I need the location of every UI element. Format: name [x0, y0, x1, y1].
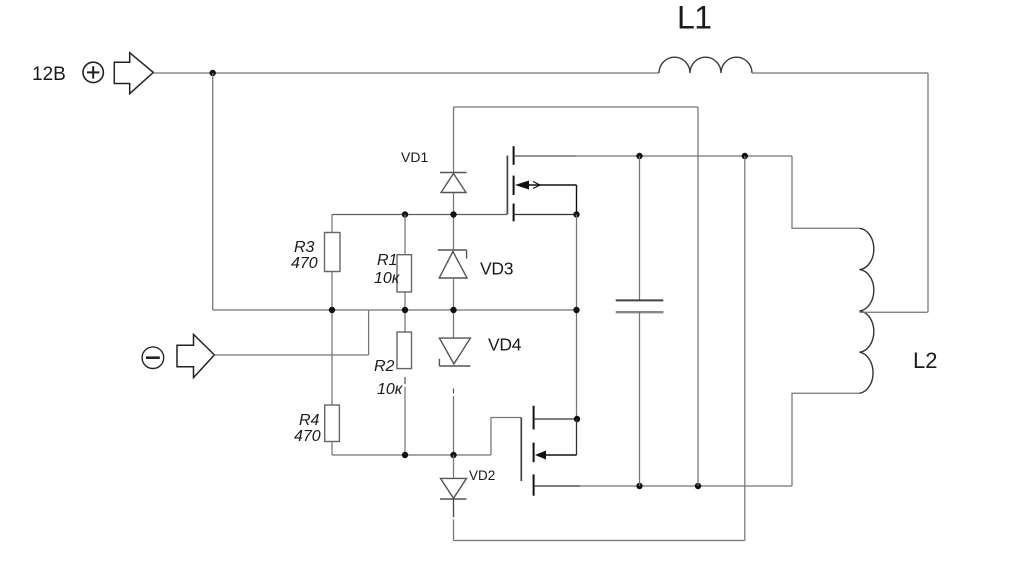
wire L2 center tap — [860, 311, 928, 313]
transistor VT1 channel dashes — [513, 146, 515, 221]
wire VD2 return vertical x744.8 — [744, 156, 746, 541]
transistor VT2 body arrow — [535, 451, 577, 460]
wire VD1 to node A — [453, 193, 455, 251]
wire bottom resistor rail y455 — [332, 454, 491, 456]
resistor R4 — [325, 405, 340, 442]
resistor R3 — [325, 233, 341, 272]
wire VT1 arrow drop — [576, 185, 578, 215]
svg-text:10к: 10к — [377, 381, 404, 398]
svg-text:VD4: VD4 — [488, 335, 522, 355]
node VT1 source — [573, 211, 579, 217]
wire VD2 bottom lead a — [453, 499, 455, 517]
node source drop — [573, 307, 579, 313]
wire drain rail y156 — [576, 155, 792, 157]
inductor L1 — [659, 57, 752, 73]
transistor VT2 source stub — [534, 485, 580, 487]
wire R2 bottom dash — [404, 377, 406, 384]
wire gate feed vertical x698 — [697, 107, 699, 486]
wire R1 bottom lead — [404, 293, 406, 333]
inductor L2 — [860, 228, 874, 393]
wire right edge vertical — [927, 73, 929, 312]
minus terminal symbol — [142, 347, 164, 369]
wire VD2 top lead — [453, 455, 455, 478]
wire R3 top lead — [331, 215, 333, 233]
transistor VT2 drain stub — [534, 418, 577, 420]
wire L2 bottom link — [792, 393, 860, 486]
input arrow plus — [114, 53, 153, 94]
svg-text:R2: R2 — [374, 358, 395, 375]
wire mid rail y310 — [213, 309, 577, 311]
svg-text:12В: 12В — [32, 64, 66, 85]
transistor VT2 gate bar — [520, 418, 522, 482]
node VD2 return top — [742, 153, 748, 159]
node gate-feed bottom — [695, 483, 701, 489]
svg-text:VD3: VD3 — [480, 259, 513, 279]
transistor VT1 source stub — [514, 214, 577, 216]
diode VD3 — [438, 250, 467, 278]
wire L2 top link — [792, 156, 860, 228]
wire VD4 bottom lead — [453, 396, 455, 455]
wire R4 bottom lead — [331, 442, 333, 456]
node VD3-VD4 — [450, 307, 456, 313]
node junction 12V branch — [210, 70, 216, 76]
wire gate feed horizontal y107 — [454, 106, 699, 108]
wire R1 top lead — [404, 215, 406, 256]
svg-text:470: 470 — [291, 255, 318, 272]
svg-text:VD2: VD2 — [469, 468, 495, 483]
node VT2 drain — [574, 416, 580, 422]
wire 12V branch vertical — [212, 73, 214, 310]
transistor VT1 body arrow — [515, 181, 577, 190]
diode VD2 — [440, 478, 467, 499]
wire minus input riser — [368, 310, 370, 355]
wire lower source rail y486 — [580, 485, 792, 487]
node cap bottom — [636, 483, 642, 489]
node cap top — [636, 153, 642, 159]
wire VD1 top lead — [453, 107, 455, 173]
diode VD1 — [440, 173, 467, 193]
wire gate riser VT2 — [491, 418, 521, 456]
resistor R1 — [397, 255, 412, 292]
wire top rail right — [752, 72, 928, 74]
svg-text:470: 470 — [294, 428, 321, 445]
plus terminal symbol — [83, 62, 103, 82]
wire VD3 bottom lead — [453, 278, 455, 338]
svg-text:VD1: VD1 — [401, 149, 428, 165]
wire VD2 bottom rail y542 — [454, 540, 745, 542]
svg-text:L2: L2 — [913, 348, 937, 373]
transistor VT1 gate bar — [506, 156, 508, 215]
wire VD2 bottom lead b — [453, 520, 455, 541]
node R1-R2 — [402, 307, 408, 313]
resistor R2 — [397, 332, 412, 369]
wire source drop x576 — [576, 215, 578, 420]
wire top rail left — [153, 72, 659, 74]
svg-text:10к: 10к — [374, 270, 401, 287]
node R3 mid — [329, 307, 335, 313]
wire gate rail y214 — [332, 214, 507, 216]
node VD2 top — [450, 452, 456, 458]
wire R3-R4 column — [331, 272, 333, 406]
wire VD4 bottom dash — [453, 389, 455, 394]
transistor VT1 drain stub — [514, 155, 576, 157]
wire minus input horizontal — [214, 354, 368, 356]
input arrow minus — [177, 334, 214, 377]
wire R2 bottom lead — [404, 387, 406, 455]
svg-text:R1: R1 — [377, 252, 397, 269]
node VD1 anode — [450, 211, 456, 217]
node R1 top — [402, 211, 408, 217]
svg-text:R3: R3 — [294, 239, 315, 256]
transistor VT2 channel dashes — [533, 406, 535, 496]
svg-text:L1: L1 — [677, 0, 712, 36]
diode VD4 — [439, 338, 470, 366]
svg-text:R4: R4 — [299, 412, 320, 429]
node R2 bottom — [402, 452, 408, 458]
wire VT2 drain drop — [576, 419, 578, 455]
capacitor C1 — [616, 156, 664, 486]
